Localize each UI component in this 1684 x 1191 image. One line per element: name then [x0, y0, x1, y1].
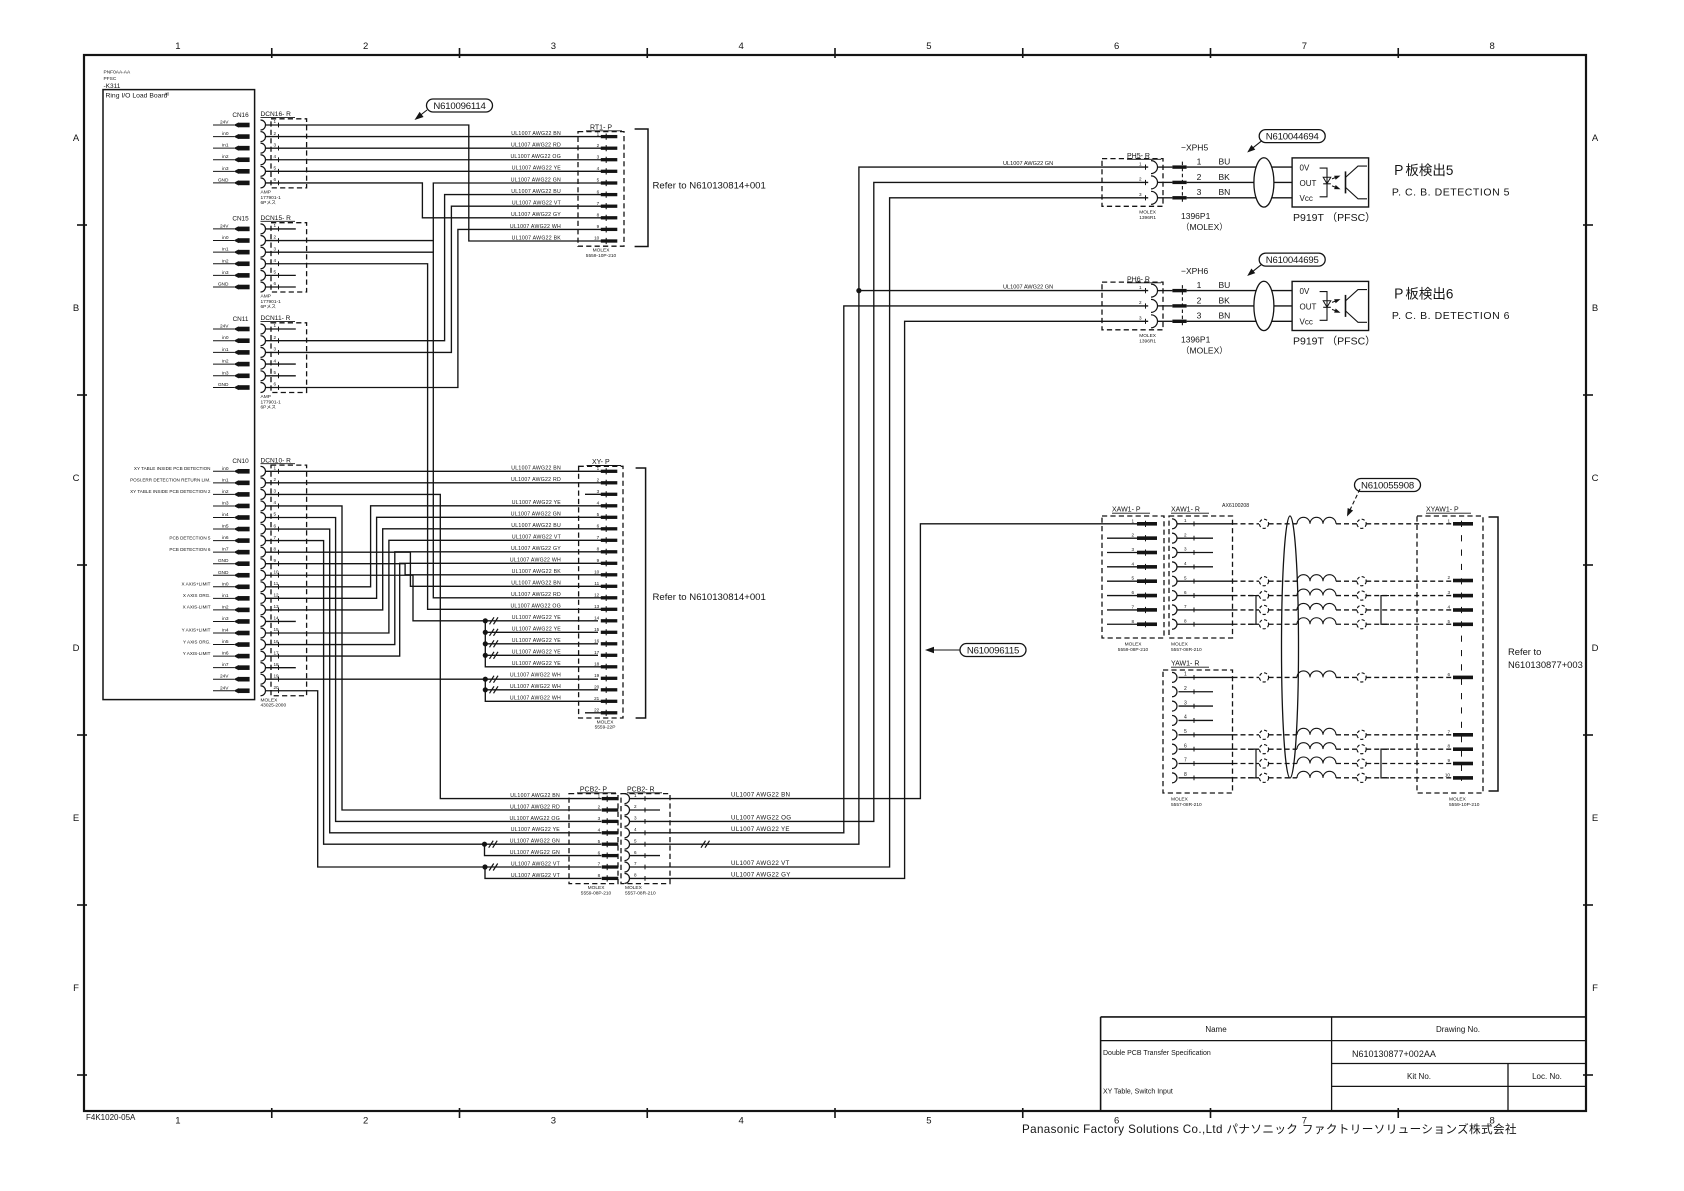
- svg-text:YAW1- R: YAW1- R: [1171, 661, 1199, 668]
- wire PCB2R.6 stub: [630, 855, 661, 857]
- wire CN10.16-XY.8: [266, 552, 602, 645]
- svg-text:2: 2: [1131, 533, 1134, 538]
- svg-text:A: A: [1592, 133, 1599, 144]
- svg-text:1396R1: 1396R1: [1139, 338, 1156, 344]
- svg-text:1: 1: [274, 466, 277, 471]
- svg-text:N610096114: N610096114: [433, 101, 486, 112]
- svg-text:BK: BK: [1219, 172, 1231, 182]
- svg-text:9: 9: [597, 558, 600, 563]
- svg-text:1: 1: [1184, 672, 1187, 678]
- svg-text:1: 1: [634, 793, 637, 798]
- svg-text:3: 3: [1184, 700, 1187, 706]
- svg-text:6: 6: [1131, 590, 1134, 595]
- svg-text:15: 15: [594, 627, 600, 632]
- wire CN10.17-XY.9: [266, 563, 602, 656]
- wire CN10.8-XY.11: [266, 552, 602, 586]
- svg-text:Refer to: Refer to: [1508, 646, 1541, 657]
- svg-text:12: 12: [274, 593, 280, 598]
- svg-text:7: 7: [597, 201, 600, 206]
- connector PH5-R: [1102, 153, 1172, 221]
- svg-text:MOLEX: MOLEX: [593, 248, 611, 254]
- svg-text:5: 5: [597, 178, 600, 183]
- svg-text:8: 8: [274, 546, 277, 551]
- svg-text:24V: 24V: [220, 685, 229, 691]
- wire RT1.5 GN riser: [433, 183, 601, 598]
- svg-text:24V: 24V: [220, 674, 229, 680]
- svg-text:in1: in1: [222, 593, 229, 599]
- svg-text:10: 10: [594, 570, 600, 575]
- svg-text:20: 20: [274, 685, 280, 690]
- wire CN10.9-XY.10: [266, 564, 602, 575]
- wire RT1.9-CN11.6 WH: [266, 229, 602, 387]
- svg-text:in0: in0: [222, 335, 229, 341]
- junction PH6 pin1 branch: [859, 290, 1148, 292]
- svg-text:6Pメス: 6Pメス: [261, 200, 277, 206]
- svg-text:8: 8: [597, 213, 600, 218]
- svg-text:1: 1: [1131, 518, 1134, 523]
- wire CN16.6-RT1.8 GY: [266, 183, 602, 218]
- connector CN15: [213, 216, 250, 290]
- connector XPH6: [1172, 266, 1292, 355]
- svg-text:-K311: -K311: [104, 83, 121, 90]
- svg-text:MOLEX: MOLEX: [1171, 642, 1189, 648]
- wire CN10.10-XY.14: [266, 575, 486, 621]
- svg-text:4: 4: [738, 41, 743, 52]
- svg-text:11: 11: [274, 581, 279, 586]
- connector DCN10- R: [261, 458, 307, 709]
- svg-text:Refer to N610130814+001: Refer to N610130814+001: [653, 181, 766, 192]
- wire CN11.5 stub: [266, 375, 296, 377]
- wire CN11.1 stub: [266, 328, 296, 330]
- svg-text:2: 2: [634, 804, 637, 809]
- svg-text:in0: in0: [222, 131, 229, 137]
- svg-text:3: 3: [274, 489, 277, 494]
- twisted-pair wires XAW1-R to XYAW1-P: [1233, 517, 1454, 629]
- svg-text:AMP: AMP: [261, 394, 271, 400]
- svg-text:5559-08P-210: 5559-08P-210: [1118, 647, 1149, 653]
- svg-text:7: 7: [1184, 758, 1187, 764]
- svg-text:8: 8: [634, 873, 637, 878]
- svg-text:MOLEX: MOLEX: [1139, 333, 1157, 339]
- connector RT1- P: [578, 124, 624, 259]
- svg-text:3: 3: [634, 816, 637, 821]
- svg-text:4: 4: [1184, 715, 1187, 721]
- svg-text:22: 22: [594, 708, 600, 713]
- svg-text:in2: in2: [222, 258, 229, 264]
- svg-text:in0: in0: [222, 581, 229, 587]
- wire CN10.5-PCB2P.3 OG: [266, 518, 602, 822]
- svg-text:OUT: OUT: [1300, 179, 1317, 188]
- svg-text:1: 1: [1139, 285, 1142, 290]
- svg-text:5: 5: [274, 512, 277, 517]
- svg-text:7: 7: [1447, 729, 1450, 734]
- wire CN10.15-XY.7: [266, 540, 602, 633]
- wire CN10.14 stub: [266, 620, 296, 622]
- wire CN10.19-XY.19 WH: [266, 678, 486, 680]
- svg-text:7: 7: [634, 861, 637, 866]
- svg-text:9: 9: [1447, 758, 1450, 763]
- cable jacket oval 6: [1254, 281, 1274, 330]
- svg-text:GND: GND: [218, 570, 229, 576]
- svg-text:5: 5: [926, 1116, 931, 1127]
- svg-text:13: 13: [594, 604, 600, 609]
- connector PCB2- P: [569, 786, 618, 896]
- svg-text:B: B: [73, 303, 79, 314]
- svg-text:1396R1: 1396R1: [1139, 215, 1156, 221]
- svg-text:P919T （PFSC）: P919T （PFSC）: [1293, 335, 1376, 347]
- svg-text:BU: BU: [1219, 157, 1231, 167]
- svg-text:in2: in2: [222, 489, 229, 495]
- svg-text:6: 6: [1184, 590, 1187, 595]
- svg-text:5559-08P-210: 5559-08P-210: [581, 890, 612, 896]
- svg-text:in7: in7: [222, 547, 229, 553]
- svg-text:1: 1: [274, 223, 277, 228]
- svg-text:5: 5: [598, 839, 601, 844]
- svg-text:6: 6: [597, 189, 600, 194]
- wire RT1.6-CN11.2 BU: [266, 195, 602, 341]
- svg-text:#0: #0: [165, 92, 170, 97]
- svg-text:9: 9: [274, 558, 277, 563]
- svg-text:UL1007 AWG22 YE: UL1007 AWG22 YE: [731, 826, 790, 833]
- svg-text:POSI.ERR DETECTION RETURN LIM.: POSI.ERR DETECTION RETURN LIM.: [130, 478, 210, 483]
- connector XY- P: [579, 459, 623, 731]
- svg-text:1: 1: [274, 323, 277, 328]
- svg-text:in3: in3: [222, 166, 229, 172]
- svg-text:3: 3: [274, 142, 277, 147]
- wire CN10.18 stub: [266, 667, 296, 669]
- svg-text:Loc. No.: Loc. No.: [1532, 1072, 1562, 1081]
- svg-text:4: 4: [274, 500, 277, 505]
- node YE bus XY-P 14-18: [483, 617, 602, 667]
- svg-text:3: 3: [1139, 192, 1142, 197]
- svg-text:in0: in0: [222, 466, 229, 472]
- svg-text:4: 4: [597, 501, 600, 506]
- svg-text:3: 3: [1184, 547, 1187, 552]
- node VT bus PCB2-P 7-8: [482, 864, 601, 879]
- PCB2-P wire color labels: [509, 793, 560, 879]
- svg-text:A: A: [73, 133, 80, 144]
- wire CN16.3-RT1.2 RD: [266, 147, 602, 149]
- detection heading 5: [1392, 163, 1510, 198]
- svg-text:7: 7: [1131, 604, 1134, 609]
- Ring I/O Load Board box: [103, 70, 255, 700]
- svg-text:5559-22P: 5559-22P: [595, 725, 616, 731]
- svg-text:F4K1020-05A: F4K1020-05A: [86, 1113, 136, 1122]
- wire CN16.2-RT1.1 BN: [266, 136, 602, 138]
- svg-text:5: 5: [274, 166, 277, 171]
- svg-text:Y AXIS ORG.: Y AXIS ORG.: [183, 639, 211, 644]
- svg-text:177901-1: 177901-1: [261, 195, 282, 201]
- svg-text:5557-08R-210: 5557-08R-210: [1171, 802, 1202, 808]
- svg-text:5559-10P-210: 5559-10P-210: [586, 253, 617, 259]
- svg-text:13: 13: [274, 604, 280, 609]
- svg-text:4: 4: [1447, 605, 1450, 610]
- svg-text:D: D: [1592, 643, 1599, 654]
- svg-text:B: B: [1592, 303, 1598, 314]
- svg-text:UL1007 AWG22 VT: UL1007 AWG22 VT: [731, 860, 790, 867]
- wire CN16.4-RT1.3 OG: [266, 159, 602, 161]
- svg-text:4: 4: [597, 166, 600, 171]
- photo sensor P919T #5: [1292, 158, 1369, 207]
- svg-text:43025-2000: 43025-2000: [261, 703, 287, 709]
- refer bracket RT1: [635, 129, 766, 247]
- svg-text:XY TABLE INSIDE PCB DETECTION: XY TABLE INSIDE PCB DETECTION: [134, 466, 211, 471]
- svg-text:in3: in3: [222, 500, 229, 506]
- connector CN10: [213, 458, 250, 693]
- svg-text:4: 4: [1131, 561, 1134, 566]
- balloon N610044694: [1247, 130, 1325, 153]
- svg-text:3: 3: [1139, 316, 1142, 321]
- connector XPH5: [1172, 143, 1292, 232]
- svg-text:6: 6: [274, 382, 277, 387]
- svg-text:6: 6: [634, 850, 637, 855]
- svg-text:Drawing No.: Drawing No.: [1436, 1025, 1480, 1034]
- svg-text:AMP: AMP: [261, 190, 271, 196]
- svg-text:2: 2: [274, 131, 277, 136]
- svg-text:3: 3: [1197, 187, 1202, 197]
- wire CN15.1 stub: [266, 228, 296, 230]
- wire PCB2R.8-PH6.3 GY: [630, 321, 1149, 878]
- wire CN15.4-XY.13: [266, 264, 602, 610]
- svg-text:OUT: OUT: [1300, 302, 1317, 311]
- svg-text:6: 6: [1114, 41, 1119, 52]
- svg-text:UL1007 AWG22 GN: UL1007 AWG22 GN: [1003, 161, 1053, 167]
- cable jacket oval XYAW: [1282, 516, 1299, 778]
- svg-text:Y AXIS-LIMIT: Y AXIS-LIMIT: [183, 651, 211, 656]
- svg-text:1: 1: [1447, 518, 1450, 523]
- svg-text:BN: BN: [1219, 187, 1231, 197]
- svg-text:5557-08R-210: 5557-08R-210: [625, 890, 656, 896]
- svg-text:in4: in4: [222, 512, 229, 518]
- wire CN15.5 stub: [266, 274, 296, 276]
- svg-text:F: F: [1592, 983, 1598, 994]
- svg-text:6: 6: [598, 850, 601, 855]
- refer bracket XY-P: [636, 468, 766, 718]
- svg-text:UL1007 AWG22 OG: UL1007 AWG22 OG: [731, 814, 791, 821]
- svg-text:MOLEX: MOLEX: [625, 885, 643, 891]
- svg-text:5: 5: [597, 512, 600, 517]
- svg-text:in5: in5: [222, 639, 229, 645]
- svg-text:18: 18: [594, 662, 600, 667]
- svg-text:6Pメス: 6Pメス: [261, 304, 277, 310]
- svg-text:5: 5: [274, 270, 277, 275]
- balloon N610044695: [1247, 253, 1325, 276]
- svg-text:MOLEX: MOLEX: [588, 885, 606, 891]
- svg-text:−XPH5: −XPH5: [1181, 143, 1208, 153]
- svg-text:3: 3: [1197, 311, 1202, 321]
- svg-text:1396P1: 1396P1: [1181, 211, 1211, 221]
- svg-text:2: 2: [597, 143, 600, 148]
- svg-text:D: D: [73, 643, 80, 654]
- svg-text:GND: GND: [218, 382, 229, 388]
- wire CN11.4 stub: [266, 363, 296, 365]
- svg-text:8: 8: [597, 547, 600, 552]
- svg-text:C: C: [73, 473, 80, 484]
- balloon N610096114: [415, 99, 493, 120]
- svg-text:1: 1: [1197, 157, 1202, 167]
- wire CN10.2-XY.2 RD: [266, 482, 602, 484]
- wire CN10.6-PCB2P.4 YE: [266, 529, 602, 833]
- svg-text:10: 10: [594, 236, 600, 241]
- wire PCB2R.2 stub: [630, 809, 661, 811]
- svg-text:PCB2- R: PCB2- R: [627, 786, 655, 793]
- svg-text:in0: in0: [222, 235, 229, 241]
- svg-text:XAW1- P: XAW1- P: [1112, 507, 1141, 514]
- svg-text:5559-10P-210: 5559-10P-210: [1449, 802, 1480, 808]
- svg-text:Vcc: Vcc: [1300, 194, 1313, 203]
- svg-text:E: E: [73, 813, 79, 824]
- svg-text:1: 1: [598, 793, 601, 798]
- svg-text:XY Table, Switch Input: XY Table, Switch Input: [1103, 1089, 1173, 1096]
- svg-text:6Pメス: 6Pメス: [261, 405, 277, 411]
- svg-text:24V: 24V: [220, 324, 229, 330]
- svg-text:6: 6: [274, 177, 277, 182]
- svg-text:17: 17: [594, 650, 600, 655]
- wire CN16.5-RT1.4 YE: [266, 170, 602, 172]
- svg-text:17: 17: [274, 650, 280, 655]
- svg-text:2: 2: [598, 805, 601, 810]
- svg-text:2: 2: [597, 478, 600, 483]
- wire CN10.3-PCB2P.1 BN: [266, 494, 602, 798]
- svg-text:5: 5: [634, 838, 637, 843]
- svg-text:7: 7: [598, 862, 601, 867]
- svg-text:E: E: [1592, 813, 1598, 824]
- svg-text:PCB2- P: PCB2- P: [580, 786, 608, 793]
- svg-text:PCB DETECTION 5: PCB DETECTION 5: [169, 535, 211, 540]
- svg-text:3: 3: [274, 347, 277, 352]
- svg-text:5557-08R-210: 5557-08R-210: [1171, 647, 1202, 653]
- svg-text:Double PCB Transfer Specificat: Double PCB Transfer Specification: [1103, 1050, 1211, 1057]
- svg-text:in3: in3: [222, 616, 229, 622]
- svg-text:1: 1: [597, 131, 600, 136]
- svg-text:in4: in4: [222, 628, 229, 634]
- svg-text:2: 2: [1139, 300, 1142, 305]
- svg-text:in1: in1: [222, 477, 229, 483]
- svg-text:1: 1: [1197, 280, 1202, 290]
- svg-text:Kit No.: Kit No.: [1407, 1072, 1431, 1081]
- svg-text:MOLEX: MOLEX: [1171, 797, 1189, 803]
- svg-text:UL1007 AWG22 BN: UL1007 AWG22 BN: [731, 792, 790, 799]
- svg-text:0V: 0V: [1300, 287, 1310, 296]
- svg-text:BN: BN: [1219, 311, 1231, 321]
- svg-text:（MOLEX）: （MOLEX）: [1181, 222, 1228, 232]
- detection heading 6: [1392, 287, 1510, 322]
- svg-text:2: 2: [274, 335, 277, 340]
- svg-text:9: 9: [597, 224, 600, 229]
- svg-text:4: 4: [1184, 561, 1187, 566]
- svg-text:5: 5: [1184, 575, 1187, 580]
- svg-text:GND: GND: [218, 558, 229, 564]
- wire CN15.3-XY.12 jog: [266, 251, 434, 253]
- svg-text:8: 8: [1184, 772, 1187, 778]
- wire RT1.7-CN11.3 VT: [266, 206, 602, 352]
- connector DCN11- R: [261, 315, 307, 411]
- svg-text:4: 4: [274, 358, 277, 363]
- svg-text:3: 3: [274, 246, 277, 251]
- svg-text:MOLEX: MOLEX: [597, 719, 615, 725]
- drain-wire brackets: [1248, 596, 1389, 778]
- svg-text:2: 2: [1139, 177, 1142, 182]
- svg-text:P. C. B. DETECTION 5: P. C. B. DETECTION 5: [1392, 186, 1510, 198]
- connector YAW1-R: [1163, 661, 1233, 808]
- RT1-P wire color labels: [510, 131, 562, 241]
- svg-text:UL1007 AWG22 WH: UL1007 AWG22 WH: [510, 673, 561, 679]
- svg-text:6: 6: [1184, 743, 1187, 749]
- svg-text:19: 19: [594, 673, 600, 678]
- svg-text:8: 8: [1184, 618, 1187, 623]
- svg-text:X AXIS ORG.: X AXIS ORG.: [183, 593, 211, 598]
- wire CN16.1-RT1.10 BK: [266, 125, 602, 241]
- wire PCB2R.1-XAW1P.1 BN: [630, 524, 1138, 799]
- svg-text:in6: in6: [222, 535, 229, 541]
- svg-text:7: 7: [1302, 41, 1307, 52]
- svg-text:in3: in3: [222, 270, 229, 276]
- wire CN10.11-XY.4: [266, 506, 602, 587]
- svg-text:3: 3: [598, 816, 601, 821]
- wire PCB2R.7-PH5.3 VT: [630, 198, 1149, 867]
- svg-text:in2: in2: [222, 604, 229, 610]
- svg-text:UL1007 AWG22 GY: UL1007 AWG22 GY: [731, 871, 791, 878]
- svg-text:in2: in2: [222, 359, 229, 365]
- PCB2-R wire color labels: [731, 792, 791, 879]
- svg-text:1: 1: [175, 1116, 180, 1127]
- svg-text:7: 7: [1184, 604, 1187, 609]
- svg-text:8: 8: [1489, 41, 1494, 52]
- svg-text:7: 7: [597, 535, 600, 540]
- svg-text:RT1- P: RT1- P: [590, 124, 612, 131]
- svg-text:Panasonic Factory Solutions Co: Panasonic Factory Solutions Co.,Ltd パナソニ…: [1022, 1122, 1517, 1136]
- svg-text:in1: in1: [222, 347, 229, 353]
- svg-text:CN11: CN11: [233, 316, 249, 323]
- svg-text:in7: in7: [222, 662, 229, 668]
- svg-text:177901-1: 177901-1: [261, 299, 282, 305]
- svg-text:Ｐ板検出5: Ｐ板検出5: [1392, 163, 1454, 178]
- svg-text:24V: 24V: [220, 223, 229, 229]
- svg-text:MOLEX: MOLEX: [261, 697, 279, 703]
- wire CN10.20-PCB2P.7 VT: [266, 691, 602, 867]
- svg-text:N610096115: N610096115: [967, 645, 1019, 656]
- svg-text:20: 20: [594, 685, 600, 690]
- connector PH6-R: [1102, 276, 1172, 344]
- balloon N610055908: [1347, 479, 1421, 517]
- svg-text:21: 21: [594, 696, 600, 701]
- svg-text:（MOLEX）: （MOLEX）: [1181, 345, 1228, 355]
- svg-text:−XPH6: −XPH6: [1181, 266, 1208, 276]
- svg-text:CN15: CN15: [232, 216, 249, 223]
- svg-text:11: 11: [594, 581, 599, 586]
- svg-text:16: 16: [594, 639, 600, 644]
- svg-text:7: 7: [274, 535, 277, 540]
- connector DCN15- R: [261, 215, 307, 310]
- svg-text:BU: BU: [1219, 280, 1231, 290]
- svg-text:10: 10: [274, 569, 280, 574]
- svg-text:3: 3: [597, 154, 600, 159]
- svg-text:5: 5: [926, 41, 931, 52]
- wire PCB2R.4-PH6.2 YE: [630, 306, 1149, 833]
- svg-text:P. C. B. DETECTION 6: P. C. B. DETECTION 6: [1392, 310, 1510, 322]
- svg-text:8: 8: [1447, 744, 1450, 749]
- connector XAW1-P: [1102, 507, 1164, 653]
- wire CN15.6 stub: [266, 286, 296, 288]
- wire CN10.13-XY.6: [266, 529, 602, 610]
- svg-text:AMP: AMP: [261, 294, 271, 300]
- svg-text:177901-1: 177901-1: [261, 399, 282, 405]
- svg-text:1: 1: [597, 466, 600, 471]
- wire CN10.1-XY.1 BN: [266, 470, 602, 472]
- svg-text:X AXIS-LIMIT: X AXIS-LIMIT: [183, 605, 211, 610]
- svg-text:XY- P: XY- P: [592, 459, 610, 466]
- svg-text:in1: in1: [222, 143, 229, 149]
